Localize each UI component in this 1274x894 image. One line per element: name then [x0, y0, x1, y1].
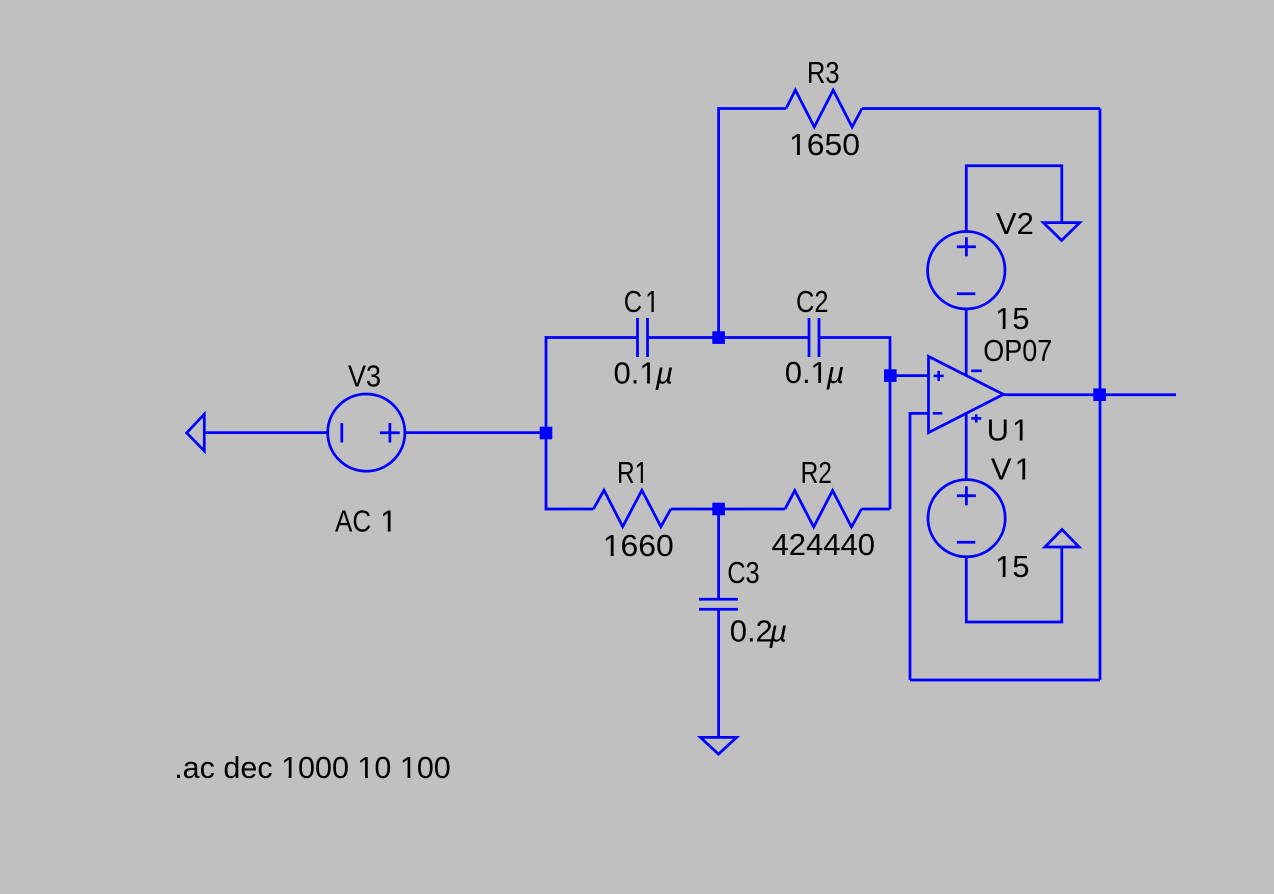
resistor R1 [593, 490, 670, 527]
svg-text:V1: V1 [991, 451, 1032, 486]
node junction V3 [540, 427, 553, 440]
svg-text:µ: µ [655, 356, 674, 391]
svg-text:AC: AC [335, 504, 371, 539]
svg-text:1: 1 [380, 503, 397, 538]
erase serif feet of 1 glyphs [283, 152, 1031, 779]
op-amp U1 [929, 356, 1004, 432]
svg-text:15: 15 [995, 549, 1029, 584]
ground V2 [1043, 223, 1079, 241]
svg-text:R3: R3 [807, 56, 839, 91]
wire C row middle [649, 336, 809, 339]
resistor R3 [786, 90, 862, 127]
svg-text:V2: V2 [996, 206, 1034, 241]
svg-text:.ac dec 1000 10 100: .ac dec 1000 10 100 [174, 750, 451, 785]
wire C3 bottom [717, 609, 720, 737]
wire V2 minus to op-amp [965, 309, 968, 376]
wire left vertical [545, 336, 548, 511]
wire op-amp output [1003, 393, 1176, 396]
voltage source V1 [928, 480, 1005, 557]
capacitor C1 [638, 318, 648, 357]
ground C3 [700, 737, 736, 754]
svg-text:R2: R2 [801, 455, 832, 489]
svg-text:0.1: 0.1 [785, 355, 828, 390]
wire top loop right segment [862, 107, 1100, 110]
wire C3 top [717, 509, 720, 599]
wire noninverting input [890, 374, 929, 377]
wire op-amp to V1 plus [965, 413, 968, 479]
capacitor C2 [809, 318, 819, 357]
svg-text:R1: R1 [617, 455, 648, 489]
ground V1 [1045, 530, 1079, 548]
wire C row left [546, 336, 637, 339]
wire V3 to node [405, 431, 546, 434]
svg-text:0.2: 0.2 [730, 614, 773, 649]
svg-text:V3: V3 [348, 360, 381, 394]
wire V1 minus to ground [966, 547, 1062, 622]
node junction R row [712, 503, 725, 516]
svg-text:1660: 1660 [603, 528, 674, 562]
svg-text:424440: 424440 [772, 527, 875, 562]
node junction op-amp input [884, 369, 897, 382]
resistor R2 [785, 491, 862, 528]
wire inverting input drop [910, 413, 929, 680]
voltage source V3 [328, 394, 405, 471]
wire bottom row left [546, 508, 593, 511]
svg-text:OP07: OP07 [983, 334, 1052, 368]
svg-text:C3: C3 [727, 556, 759, 591]
wire top loop left segment [719, 109, 786, 337]
svg-text:1650: 1650 [789, 127, 860, 161]
node junction C row [712, 331, 725, 344]
wire bottom row middle [671, 508, 785, 511]
wire C row right [820, 338, 890, 510]
wire right feedback vertical [1099, 109, 1102, 681]
svg-text:C2: C2 [796, 284, 828, 319]
wire feedback bottom horizontal [910, 679, 1100, 682]
wire bottom row right [862, 508, 891, 511]
svg-text:C1: C1 [624, 285, 659, 320]
ground flag left [187, 414, 328, 451]
svg-text:0.1: 0.1 [614, 356, 657, 391]
voltage source V2 [928, 232, 1005, 309]
svg-text:µ: µ [768, 614, 787, 649]
wire V2 plus to ground [966, 166, 1062, 232]
node junction output [1093, 388, 1106, 401]
svg-text:µ: µ [826, 355, 845, 390]
svg-text:U1: U1 [987, 412, 1030, 447]
svg-text:15: 15 [995, 301, 1029, 336]
capacitor C3 [699, 599, 738, 609]
